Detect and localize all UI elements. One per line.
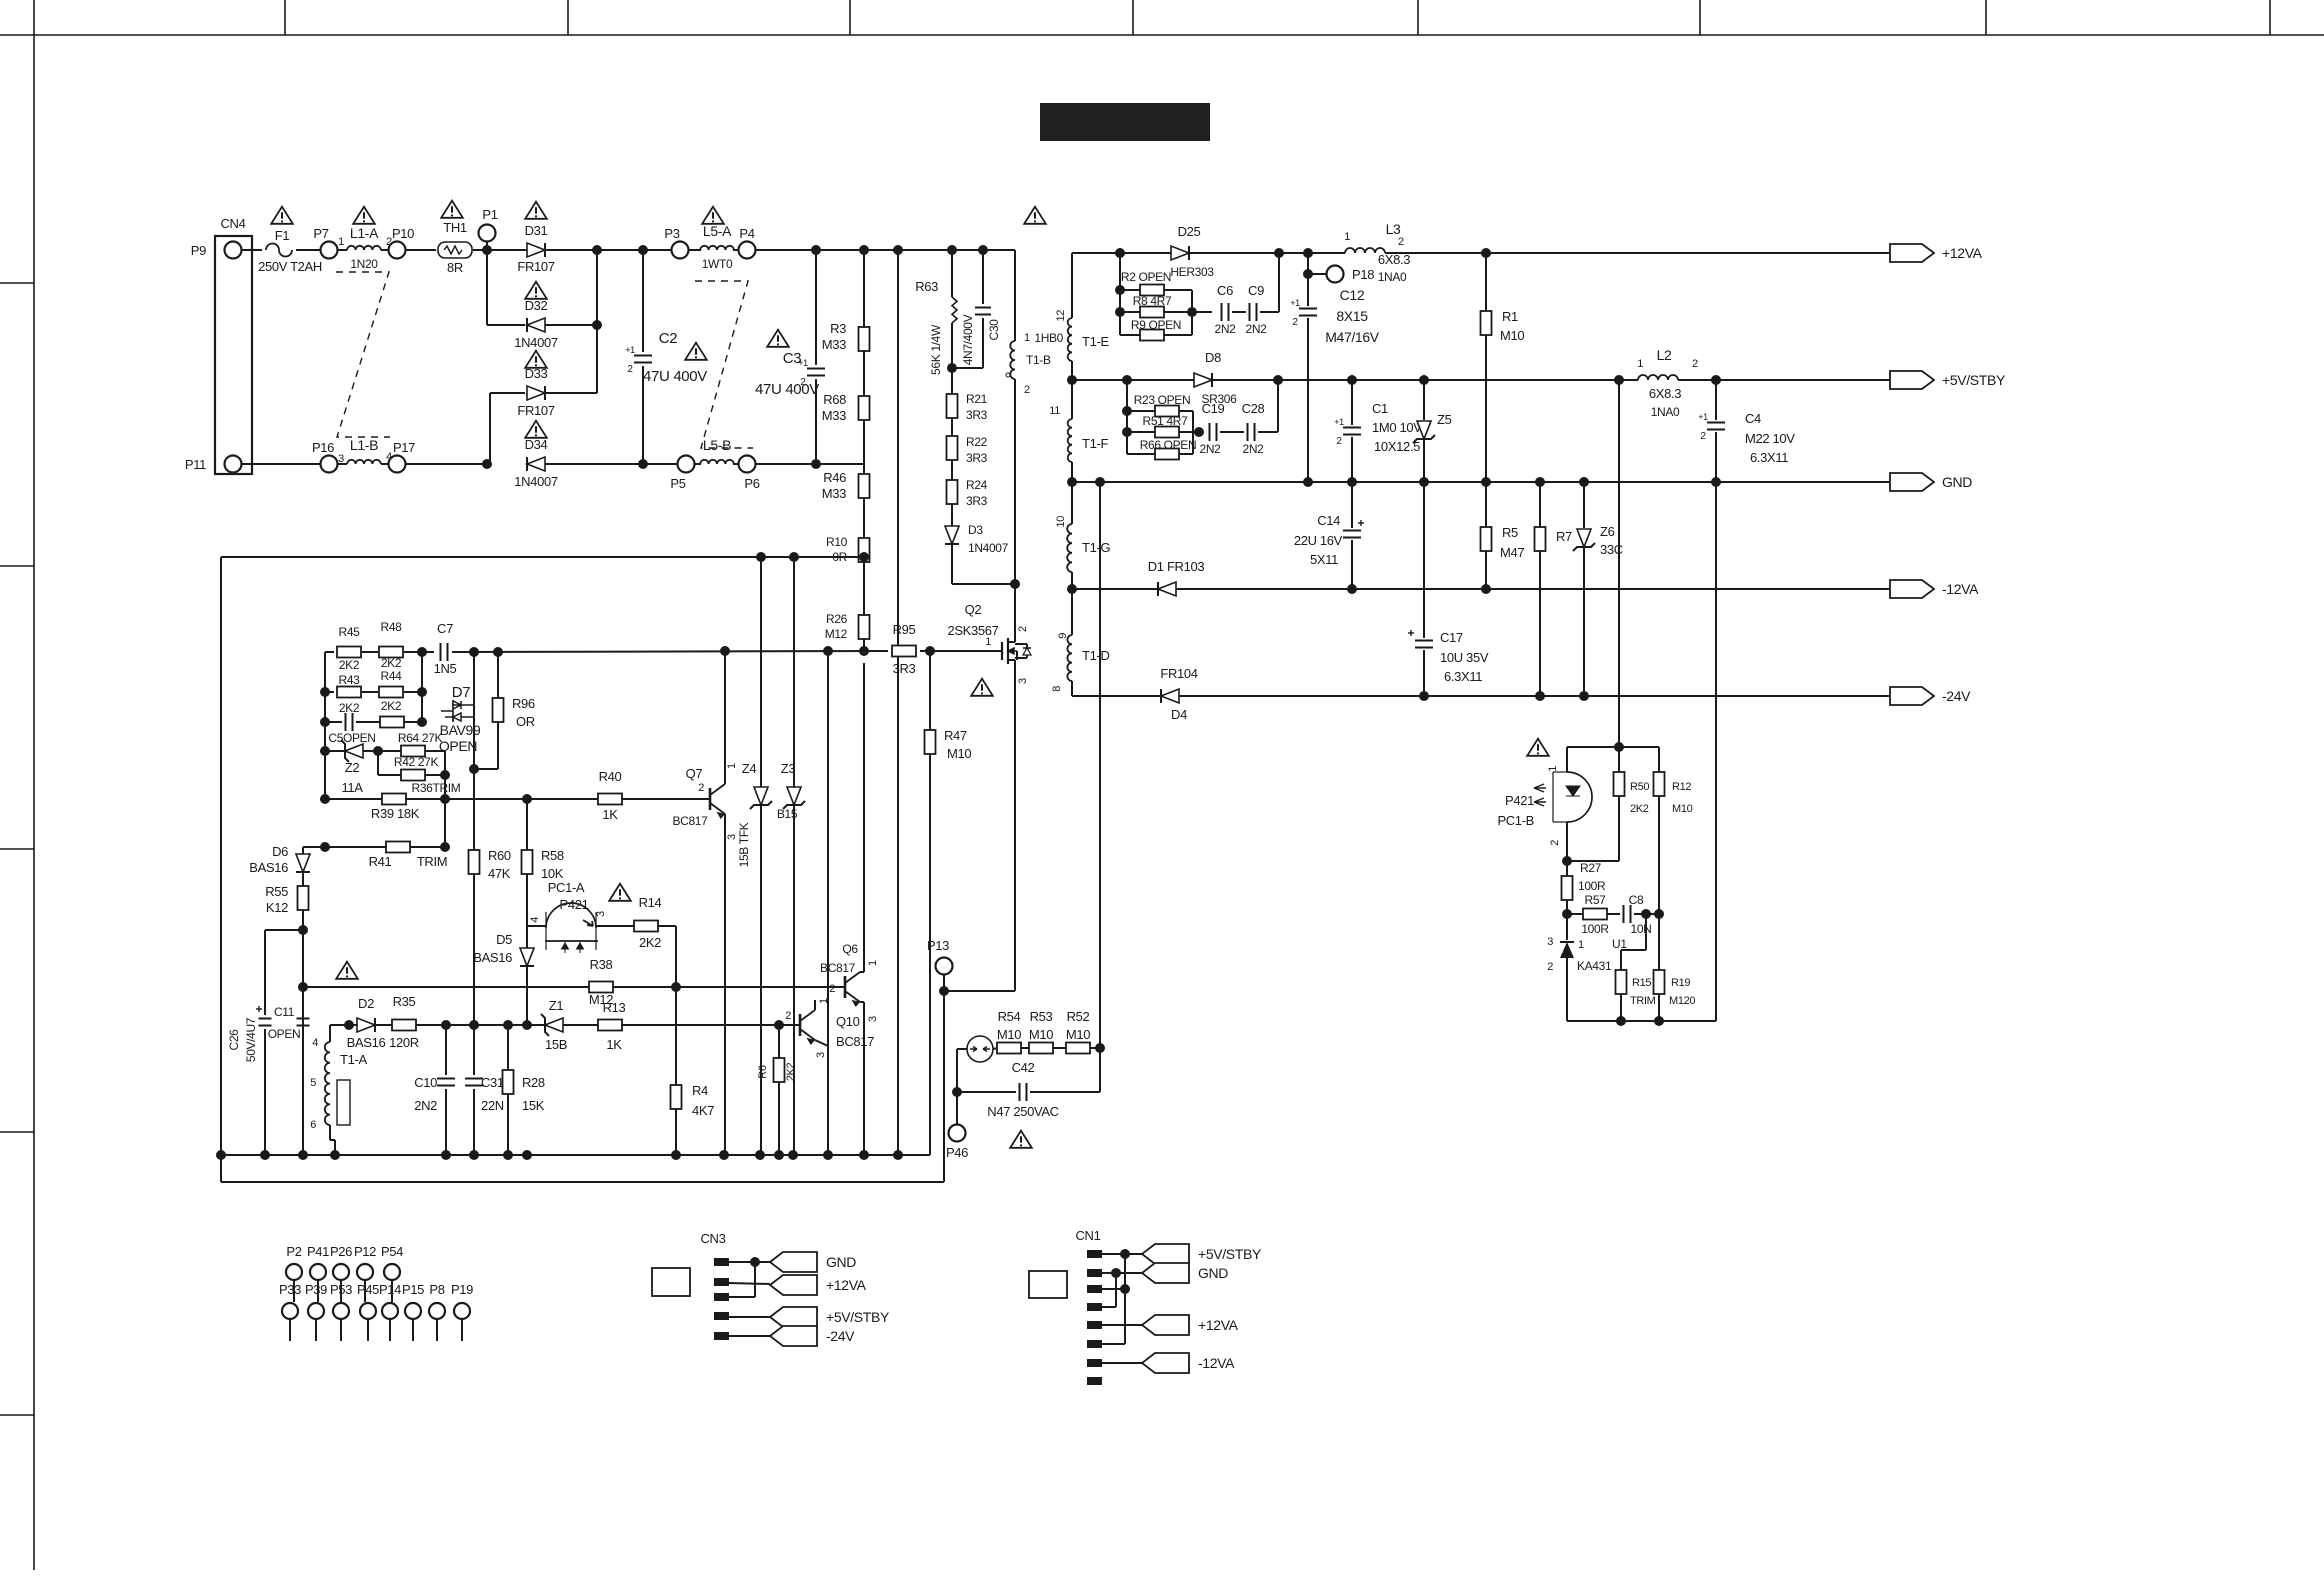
node R96 top [493, 647, 503, 657]
node D7 col top [469, 647, 479, 657]
warning triangle PC1-A [609, 884, 631, 901]
svg-text:R27: R27 [1580, 861, 1602, 875]
svg-text:D25: D25 [1178, 224, 1201, 239]
diode D4 FR104 [1161, 689, 1179, 703]
svg-text:1HB0: 1HB0 [1034, 331, 1063, 345]
svg-text:OPEN: OPEN [268, 1027, 301, 1041]
svg-text:10U 35V: 10U 35V [1440, 650, 1489, 665]
svg-text:2K2: 2K2 [785, 1063, 797, 1082]
svg-text:T1-G: T1-G [1082, 540, 1110, 555]
node R7 top [1535, 477, 1545, 487]
svg-text:3: 3 [595, 911, 607, 917]
input arrow CN1 -12VA [1142, 1353, 1189, 1373]
resistor R41 TRIM [303, 846, 386, 848]
svg-text:10: 10 [1055, 516, 1067, 528]
svg-text:50V/4U7: 50V/4U7 [244, 1017, 258, 1062]
resistor R60 47K [473, 769, 475, 850]
node D8 cathode [1273, 375, 1283, 385]
svg-text:1: 1 [1024, 332, 1030, 344]
svg-text:Q10: Q10 [836, 1014, 860, 1029]
snubber R9 OPEN [1120, 334, 1140, 336]
svg-text:L5-A: L5-A [703, 223, 732, 239]
resistor R64 27K [380, 717, 404, 728]
zener Z5 [1423, 380, 1425, 420]
svg-text:R19: R19 [1671, 977, 1690, 989]
svg-text:R1: R1 [1502, 309, 1518, 324]
svg-text:T1-B: T1-B [1026, 353, 1051, 367]
svg-text:C3: C3 [783, 350, 801, 367]
svg-text:P33: P33 [279, 1282, 301, 1297]
capacitor C11 OPEN [302, 930, 304, 1015]
resistor R68 M33 [863, 351, 865, 396]
resistor R40 1K [527, 798, 598, 800]
terminal P18 [1327, 266, 1344, 283]
svg-text:BC817: BC817 [820, 961, 856, 975]
svg-text:R35: R35 [393, 994, 416, 1009]
svg-text:+1: +1 [1290, 298, 1300, 308]
wire neutral rail right [545, 463, 677, 465]
node Q2 drain [1010, 579, 1020, 589]
diode D5 BAS16 [526, 926, 528, 948]
svg-text:2N2: 2N2 [1215, 322, 1237, 336]
wire feedback bottom [1567, 1020, 1716, 1022]
svg-text:8R: 8R [447, 260, 463, 275]
wire C26 link [265, 929, 303, 931]
transistor Q6 BC817 [844, 976, 847, 998]
svg-text:BAS16: BAS16 [249, 860, 288, 875]
svg-text:R12: R12 [1672, 781, 1691, 793]
optocoupler PC1-B P421 [1566, 747, 1568, 772]
svg-text:12: 12 [1055, 310, 1067, 322]
svg-text:M10: M10 [1672, 803, 1693, 815]
node C14 bottom [1347, 584, 1357, 594]
svg-text:R24: R24 [966, 478, 988, 492]
svg-text:P54: P54 [381, 1244, 403, 1259]
resistor R28 15K [507, 1025, 509, 1070]
node CN3 gnd [750, 1257, 760, 1267]
svg-text:M10: M10 [1500, 328, 1524, 343]
svg-text:2: 2 [829, 983, 835, 995]
svg-text:L3: L3 [1386, 221, 1401, 237]
svg-text:P13: P13 [927, 938, 949, 953]
svg-text:D7: D7 [452, 684, 470, 701]
svg-text:L2: L2 [1657, 347, 1672, 363]
svg-text:P41: P41 [307, 1244, 329, 1259]
node R55 bottom [298, 925, 308, 935]
svg-text:+5V/STBY: +5V/STBY [1942, 372, 2006, 388]
capacitor C31 22N [473, 1025, 475, 1075]
wire lower return y=1182 [220, 1155, 222, 1182]
svg-text:GND: GND [1942, 474, 1972, 490]
svg-text:Z5: Z5 [1437, 412, 1452, 427]
svg-text:-12VA: -12VA [1198, 1355, 1235, 1371]
svg-text:2: 2 [698, 782, 704, 794]
wire D7 col x=474 [473, 652, 475, 769]
svg-text:1: 1 [726, 763, 738, 769]
svg-text:2: 2 [1547, 961, 1553, 973]
svg-text:3R3: 3R3 [966, 408, 988, 422]
svg-text:R64 27K: R64 27K [398, 731, 443, 745]
node C7 left [417, 647, 427, 657]
node R41 row left [320, 842, 330, 852]
terminal P4 [739, 242, 756, 259]
output -12VA [1890, 580, 1934, 598]
capacitor C26 50V/4U7 [264, 930, 266, 1015]
svg-text:FR107: FR107 [517, 259, 554, 274]
node C42 col top [1095, 477, 1105, 487]
svg-text:4: 4 [312, 1037, 318, 1049]
node C8 right [1641, 909, 1651, 919]
svg-text:2N2: 2N2 [1243, 442, 1265, 456]
warning triangle D32 [525, 282, 547, 299]
node R58 col top [522, 794, 532, 804]
title block (redacted) [1040, 103, 1210, 141]
svg-text:BC817: BC817 [836, 1034, 874, 1049]
node R23 col top [1122, 375, 1132, 385]
svg-text:R9 OPEN: R9 OPEN [1131, 318, 1181, 332]
svg-text:R14: R14 [639, 895, 662, 910]
inductor L5-A [700, 246, 734, 250]
svg-text:15B: 15B [545, 1037, 567, 1052]
svg-text:R7: R7 [1556, 529, 1572, 544]
wire CN1 pin7 -12VA [1102, 1362, 1142, 1364]
terminal P16 [321, 456, 338, 473]
svg-text:2K2: 2K2 [381, 699, 402, 713]
svg-text:33C: 33C [1600, 542, 1623, 557]
svg-text:OR: OR [516, 714, 535, 729]
node Z3 top [789, 552, 799, 562]
svg-text:P9: P9 [191, 243, 206, 258]
svg-text:9: 9 [1057, 633, 1069, 639]
svg-text:CN1: CN1 [1076, 1228, 1101, 1243]
node Z4 top [756, 552, 766, 562]
wire CN1 pin4 [1102, 1306, 1116, 1308]
border frame left line [33, 0, 35, 1570]
diode D6 BAS16 [302, 847, 304, 854]
node R19 bottom [1654, 1016, 1664, 1026]
svg-text:10X12.5: 10X12.5 [1374, 439, 1420, 454]
svg-text:6.3X11: 6.3X11 [1444, 669, 1482, 684]
node R96 bottom [469, 764, 479, 774]
svg-text:PC1-A: PC1-A [548, 880, 585, 895]
svg-text:4K7: 4K7 [692, 1103, 714, 1118]
node D5 bottom [522, 1020, 532, 1030]
svg-text:P7: P7 [313, 226, 328, 241]
resistor R4 4K7 [675, 987, 677, 1085]
svg-text:P1: P1 [482, 207, 497, 222]
svg-text:+1: +1 [1334, 417, 1344, 427]
node R3 top [859, 245, 869, 255]
capacitor C3 47U 400V [815, 250, 817, 365]
svg-text:P17: P17 [393, 440, 415, 455]
wire D2/Z1 row y=1025 [349, 1024, 357, 1026]
svg-text:1NA0: 1NA0 [1651, 405, 1680, 419]
inductor L2 6X8.3 1NA0 [1638, 375, 1678, 380]
wire P13 to Q2 source [944, 990, 1015, 992]
svg-text:6: 6 [310, 1119, 316, 1131]
wire aux line y=557 [221, 556, 864, 558]
svg-text:R39 18K: R39 18K [371, 806, 420, 821]
node D25 anode [1115, 248, 1125, 258]
warning triangle F1 [271, 207, 293, 224]
svg-text:22N: 22N [481, 1098, 504, 1113]
svg-text:N47 250VAC: N47 250VAC [987, 1104, 1058, 1119]
border frame top line [0, 34, 2324, 36]
svg-text:R13: R13 [603, 1000, 626, 1015]
resistor R50 2K2 [1618, 747, 1620, 772]
svg-text:C8: C8 [1629, 893, 1644, 907]
terminal P13 [936, 958, 953, 975]
svg-text:M10: M10 [997, 1027, 1021, 1042]
svg-text:3: 3 [338, 453, 344, 465]
node R28 top [503, 1020, 513, 1030]
node R15 bottom [1616, 1016, 1626, 1026]
svg-text:M47: M47 [1500, 545, 1524, 560]
resistor R14 2K2 [634, 921, 658, 932]
warning triangle C42 [1010, 1131, 1032, 1148]
svg-text:1: 1 [818, 998, 830, 1004]
node PC1-B cathode [1562, 856, 1572, 866]
node R6 top [774, 1020, 784, 1030]
resistor R1 M10 [1485, 253, 1487, 311]
node R8 right [1187, 307, 1197, 317]
svg-text:R55: R55 [265, 884, 288, 899]
svg-text:10K: 10K [541, 866, 564, 881]
svg-text:2: 2 [1549, 840, 1561, 846]
svg-text:4N7/400V: 4N7/400V [961, 314, 975, 365]
input arrow CN1 +5V/STBY [1142, 1244, 1189, 1264]
svg-text:P421: P421 [1505, 793, 1534, 808]
input arrow CN3 +12VA [770, 1275, 817, 1295]
node R12 bottom [1654, 909, 1664, 919]
wire R38 row [303, 986, 589, 988]
svg-text:M10: M10 [1029, 1027, 1053, 1042]
optocoupler PC1-A P421 [546, 903, 596, 928]
svg-text:+5V/STBY: +5V/STBY [826, 1309, 890, 1325]
output GND [1890, 473, 1934, 491]
diode D33 FR107 [527, 386, 545, 400]
svg-text:C28: C28 [1242, 401, 1265, 416]
svg-text:R50: R50 [1630, 781, 1649, 793]
svg-text:3R3: 3R3 [966, 451, 988, 465]
diode D31 FR107 [527, 243, 545, 257]
input arrow CN3 -24V [770, 1326, 817, 1346]
node Z2 left [320, 746, 330, 756]
svg-text:1: 1 [1547, 766, 1559, 772]
node R14-R38 [671, 982, 681, 992]
svg-text:GND: GND [1198, 1265, 1228, 1281]
svg-text:22U 16V: 22U 16V [1294, 533, 1343, 548]
svg-text:P3: P3 [664, 226, 679, 241]
node C4 bottom [1711, 477, 1721, 487]
warning triangle C2 [685, 343, 707, 360]
svg-text:C26: C26 [227, 1029, 241, 1051]
winding T1-E [1071, 253, 1073, 318]
svg-text:D4: D4 [1171, 707, 1187, 722]
node R39 row left [320, 794, 330, 804]
svg-text:R6: R6 [757, 1065, 769, 1079]
svg-text:Z6: Z6 [1600, 524, 1615, 539]
wire -12VA rail [1072, 588, 1158, 590]
svg-text:BC817: BC817 [673, 814, 709, 828]
wire neutral rail [242, 463, 320, 465]
node C4 top [1711, 375, 1721, 385]
svg-text:1K: 1K [606, 1037, 622, 1052]
resistor R45 2K2 [324, 652, 326, 799]
svg-text:11A: 11A [341, 780, 363, 795]
resistor R22 3R3 [951, 418, 953, 436]
node R1 bottom [1481, 477, 1491, 487]
node P18 [1303, 269, 1313, 279]
wire bottom bus y=1155 [221, 1154, 930, 1156]
wire CN3 pin4 +5V/STBY [729, 1316, 770, 1318]
node R26 bottom [859, 646, 869, 656]
warning triangle L5-A [702, 207, 724, 224]
wire gate row y=651 [325, 651, 334, 653]
capacitor C6 2N2 [1222, 303, 1229, 321]
svg-text:R15: R15 [1632, 977, 1651, 989]
wire feedback sense column [1618, 380, 1620, 747]
svg-text:R44: R44 [381, 669, 403, 683]
svg-text:2: 2 [1398, 236, 1404, 248]
transistor Q2 2SK3567 MOSFET [1014, 584, 1016, 641]
svg-text:56K 1/4W: 56K 1/4W [929, 324, 943, 375]
svg-text:1N4007: 1N4007 [968, 541, 1009, 555]
resistor R12 M10 [1658, 747, 1660, 772]
wire D32 branch [486, 250, 488, 325]
node C17 bottom [1419, 691, 1429, 701]
svg-text:P4: P4 [739, 226, 754, 241]
svg-text:2: 2 [1336, 436, 1342, 447]
warning triangle C3 [767, 330, 789, 347]
resistor R43 2K2 [325, 691, 334, 693]
resistor R19 M120 [1658, 914, 1660, 970]
svg-text:47K: 47K [488, 866, 511, 881]
capacitor C19 2N2 [1210, 423, 1217, 441]
resistor R55 K12 [298, 886, 309, 910]
svg-text:15K: 15K [522, 1098, 545, 1113]
warning triangle D34 [525, 421, 547, 438]
svg-text:Z2: Z2 [345, 760, 360, 775]
svg-text:C11: C11 [274, 1005, 295, 1019]
wire CN3 pin3 to gnd [729, 1296, 755, 1298]
transistor Q10 BC817 [790, 1024, 800, 1026]
svg-text:4: 4 [529, 917, 541, 923]
node R63 top [947, 245, 957, 255]
svg-text:1K: 1K [602, 807, 618, 822]
wire CN3 pin5 -24V [729, 1335, 770, 1337]
svg-text:L1-B: L1-B [350, 437, 378, 453]
svg-text:250V T2AH: 250V T2AH [258, 259, 322, 274]
wire GND rail [1072, 481, 1890, 483]
svg-text:R10: R10 [826, 535, 848, 549]
svg-text:R48: R48 [381, 620, 403, 634]
svg-text:P26: P26 [330, 1244, 352, 1259]
resistor R42 27K [378, 750, 401, 752]
node C3 top [811, 245, 821, 255]
svg-text:R60: R60 [488, 848, 511, 863]
svg-text:D1 FR103: D1 FR103 [1148, 559, 1205, 574]
svg-text:P11: P11 [185, 457, 206, 472]
snubber R51 4R7 [1122, 427, 1132, 437]
capacitor C30 4N7/400V [982, 250, 984, 304]
svg-text:1: 1 [1344, 231, 1350, 243]
svg-text:M10: M10 [1066, 1027, 1090, 1042]
svg-text:C10: C10 [414, 1075, 437, 1090]
svg-text:D32: D32 [525, 298, 548, 313]
svg-text:1N5: 1N5 [434, 661, 457, 676]
svg-text:3: 3 [1547, 936, 1553, 948]
warning triangle PC1-B [1527, 739, 1549, 756]
svg-text:2: 2 [785, 1010, 791, 1022]
svg-text:C6: C6 [1217, 283, 1233, 298]
thermistor TH1 [438, 242, 472, 258]
node Z5 top [1419, 375, 1429, 385]
svg-text:1N20: 1N20 [350, 257, 378, 271]
resistor R53 M10 [1021, 1047, 1030, 1049]
svg-text:1: 1 [1637, 358, 1643, 370]
svg-text:TH1: TH1 [443, 220, 467, 235]
node C10 top [441, 1020, 451, 1030]
svg-text:C14: C14 [1317, 513, 1340, 528]
node C3 bottom [811, 459, 821, 469]
svg-text:1: 1 [338, 236, 344, 248]
svg-text:1: 1 [867, 960, 879, 966]
node D25 cathode [1274, 248, 1284, 258]
node C12 top [1303, 248, 1313, 258]
node C12 bottom [1303, 477, 1313, 487]
svg-text:D31: D31 [525, 223, 548, 238]
svg-text:+1: +1 [625, 345, 635, 355]
svg-text:P15: P15 [402, 1282, 424, 1297]
fuse F1 [266, 244, 292, 257]
svg-text:TRIM: TRIM [417, 854, 447, 869]
svg-text:R45: R45 [339, 625, 361, 639]
svg-text:CN4: CN4 [221, 216, 246, 231]
node R57 left [1562, 909, 1572, 919]
wire CN1 pin6 [1102, 1343, 1125, 1345]
svg-text:C1: C1 [1372, 401, 1388, 416]
resistor R63 56K 1/4W [951, 250, 953, 297]
svg-text:R58: R58 [541, 848, 564, 863]
resistor R6 2K2 [778, 1025, 780, 1058]
svg-text:T1-F: T1-F [1082, 436, 1108, 451]
zener Z3 B15 [793, 557, 795, 787]
node R36 right [440, 770, 450, 780]
svg-text:FR104: FR104 [1160, 666, 1197, 681]
svg-text:D5: D5 [496, 932, 512, 947]
node live-TH1 [482, 245, 492, 255]
node C2 bottom [638, 459, 648, 469]
svg-text:3: 3 [815, 1052, 827, 1058]
node Z5 bottom [1419, 477, 1429, 487]
wire D3 to drain node [952, 583, 1015, 585]
diode D25 HER303 [1171, 246, 1189, 260]
svg-text:M22 10V: M22 10V [1745, 431, 1795, 446]
resistor R52 M10 [1053, 1047, 1066, 1049]
inductor L5-B [700, 460, 734, 464]
svg-text:R21: R21 [966, 392, 988, 406]
node R52 right [1095, 1043, 1105, 1053]
resistor R38 M12 [589, 982, 613, 993]
wire CN3 pin2 +12VA [729, 1283, 770, 1284]
svg-text:5: 5 [310, 1077, 316, 1089]
svg-text:R2 OPEN: R2 OPEN [1121, 270, 1171, 284]
svg-text:R41: R41 [369, 854, 392, 869]
node R1 top [1481, 248, 1491, 258]
svg-text:C42: C42 [1012, 1060, 1035, 1075]
svg-text:P16: P16 [312, 440, 334, 455]
